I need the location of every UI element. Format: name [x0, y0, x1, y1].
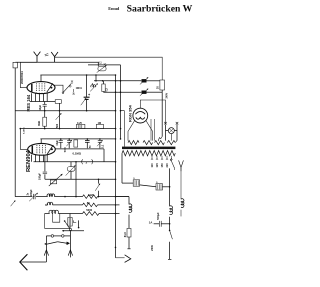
capacitor C12 100uF [44, 155, 46, 171]
svg-text:1M: 1M [98, 122, 101, 125]
switch S3 [169, 224, 171, 231]
voice coil drop [53, 214, 60, 223]
choke L6 [170, 206, 173, 215]
arrow at bus bottom [11, 201, 16, 207]
svg-text:500µF: 500µF [156, 212, 160, 220]
dial lamp [168, 128, 174, 134]
grid resistor R2 [55, 100, 61, 104]
svg-text:150: 150 [160, 163, 164, 168]
band switch S4 [54, 85, 63, 92]
antenna coupling box [13, 62, 17, 68]
svg-text:220: 220 [165, 163, 169, 168]
wire y179.3 [45, 178, 116, 180]
secondary taps [151, 156, 153, 160]
wire trimmer2 to bus [147, 91, 163, 93]
wire y138.9 [40, 138, 115, 140]
resistor R5 3MOhm [43, 117, 47, 126]
svg-text:100µF: 100µF [39, 173, 42, 180]
capacitor C5 electrolytic [86, 75, 88, 97]
tube REN904 envelope [28, 143, 56, 155]
transformer primary winding [128, 141, 139, 145]
resistor R4 [160, 80, 165, 90]
trimmer C11 [142, 91, 147, 94]
tube1 top lead [40, 75, 42, 82]
resistor R3 vertical [103, 81, 105, 84]
capacitor block C15 [133, 180, 139, 186]
antenna change-over mark [45, 54, 49, 56]
small box R9 [50, 180, 56, 184]
capacitor C8 [86, 139, 88, 141]
stub [95, 75, 97, 81]
wire to cap boxes [122, 182, 133, 184]
wire y161.8 [34, 161, 116, 163]
tube REN904 electrodes [32, 145, 53, 154]
svg-text:500: 500 [56, 123, 59, 128]
svg-text:10µF: 10µF [56, 140, 59, 146]
tube1 pin bus [30, 101, 55, 103]
wire trimmer1 to R4 [147, 80, 160, 82]
capacitor C13 [15, 196, 32, 198]
antenna A2 [51, 52, 58, 62]
svg-text:20W: 20W [150, 245, 154, 251]
pin2 arrowhead [68, 250, 72, 256]
wire top right to corner [54, 56, 56, 58]
lamp leads [165, 124, 167, 140]
svg-text:5000: 5000 [65, 146, 67, 152]
hum coil L7 [180, 171, 182, 199]
wire y110.7 [15, 110, 115, 112]
wire antenna to grid [20, 62, 37, 87]
antenna A1 [34, 52, 41, 63]
transformer core [122, 147, 175, 150]
svg-text:81,6: 81,6 [123, 232, 127, 238]
wire antenna bus [15, 61, 98, 63]
wire drop to volume box [97, 62, 99, 66]
svg-text:1W41: 1W41 [76, 87, 83, 90]
pin1 arrowhead [44, 250, 48, 256]
wire y80.8 [94, 80, 141, 82]
secondary left lead [121, 153, 123, 183]
svg-text:0,1MΩ: 0,1MΩ [73, 151, 82, 155]
svg-text:110: 110 [150, 163, 154, 168]
svg-text:RES 164: RES 164 [26, 94, 31, 111]
x terminals lamp [164, 122, 167, 125]
mains cable arrow [20, 254, 28, 270]
bus to primary squiggle [158, 137, 162, 142]
connector (2) [82, 159, 83, 164]
tube RES164 envelope [27, 82, 55, 94]
resistor R7 1M [96, 124, 103, 128]
mains cord wire [20, 261, 46, 263]
wire top second [88, 64, 121, 66]
svg-text:0,1MΩ: 0,1MΩ [24, 127, 26, 134]
choke L8 [129, 204, 132, 213]
tube1 pins [31, 93, 33, 101]
field line [169, 168, 171, 206]
capacitor C17 500uF [161, 223, 169, 225]
capacitor C9 [99, 139, 101, 141]
wire y148.2 [55, 148, 104, 150]
resistor 81,6 [127, 228, 131, 237]
wire y230.8 [62, 230, 84, 232]
resistor R8 [74, 140, 78, 147]
contact [74, 220, 77, 222]
pot P1 top [98, 66, 106, 71]
voltage selector arrow [171, 159, 175, 168]
tube top lead [140, 100, 165, 124]
tube RGN354 filament [135, 112, 145, 115]
svg-text:240V: 240V [166, 93, 169, 99]
svg-text:125: 125 [155, 163, 159, 168]
anode leads [128, 121, 135, 141]
variable inductor L2 [91, 85, 96, 87]
wire x124 down [121, 111, 125, 147]
tube RGN354 envelope [133, 108, 148, 123]
svg-text:3MΩ: 3MΩ [38, 121, 41, 126]
selector fork [179, 160, 184, 167]
svg-text:10µF: 10µF [39, 104, 42, 110]
svg-text:Emud: Emud [108, 6, 120, 11]
heater taps [150, 119, 152, 141]
rail A [115, 75, 117, 258]
tube2 grid wire [20, 129, 28, 150]
tube RES164 electrodes [32, 83, 53, 92]
svg-text:REN904: REN904 [26, 149, 32, 172]
wire y128.6 [20, 128, 115, 130]
chassis arrow [125, 255, 131, 263]
bracket wire [45, 214, 70, 229]
wire box2 to field line [162, 186, 169, 188]
capacitor C3 10uF [44, 102, 46, 105]
wire x76 down [75, 162, 77, 197]
capacitor C7 5000 [68, 139, 70, 141]
selector stem down [174, 168, 176, 170]
switch row [45, 243, 47, 245]
capacitor block C16 [156, 184, 162, 190]
capacitor block C14 [68, 218, 72, 227]
resistor R6 0,25 [76, 124, 85, 128]
switch S2 [98, 179, 100, 183]
tube2 pins [31, 155, 33, 162]
choke L4 row2 [45, 204, 47, 206]
svg-text:1A: 1A [149, 220, 153, 224]
tube2 top pin [40, 139, 42, 144]
svg-text:Saarbrücken W: Saarbrücken W [127, 4, 193, 15]
wire y92.2 [104, 91, 142, 93]
field branch [116, 196, 130, 198]
pot P2 pill [67, 167, 75, 172]
svg-text:RGN 354: RGN 354 [127, 105, 132, 122]
x terminal on top wire [104, 63, 106, 65]
rail B [120, 65, 122, 139]
svg-text:0,25: 0,25 [77, 122, 82, 125]
wire between boxes [140, 185, 156, 187]
wire anode top [40, 74, 115, 76]
svg-text:100µF: 100µF [30, 189, 33, 196]
left pin stem [45, 236, 47, 262]
mains switch S1 pivot [69, 228, 71, 230]
left bus wire [14, 68, 16, 197]
transformer secondary winding [122, 151, 175, 156]
variable arrow 500 [56, 113, 62, 119]
wire top bus to R4 [55, 57, 163, 80]
wire down from R2 [59, 103, 61, 128]
tone pot arrow [49, 174, 62, 186]
plug row circles [46, 235, 51, 237]
choke L3 row1 [47, 194, 55, 197]
right bus down [161, 90, 163, 92]
rail A to ground [116, 257, 125, 259]
trimmer C10 [142, 79, 147, 82]
choke L5 row3 [45, 213, 50, 215]
capacitor C6 [60, 139, 62, 141]
